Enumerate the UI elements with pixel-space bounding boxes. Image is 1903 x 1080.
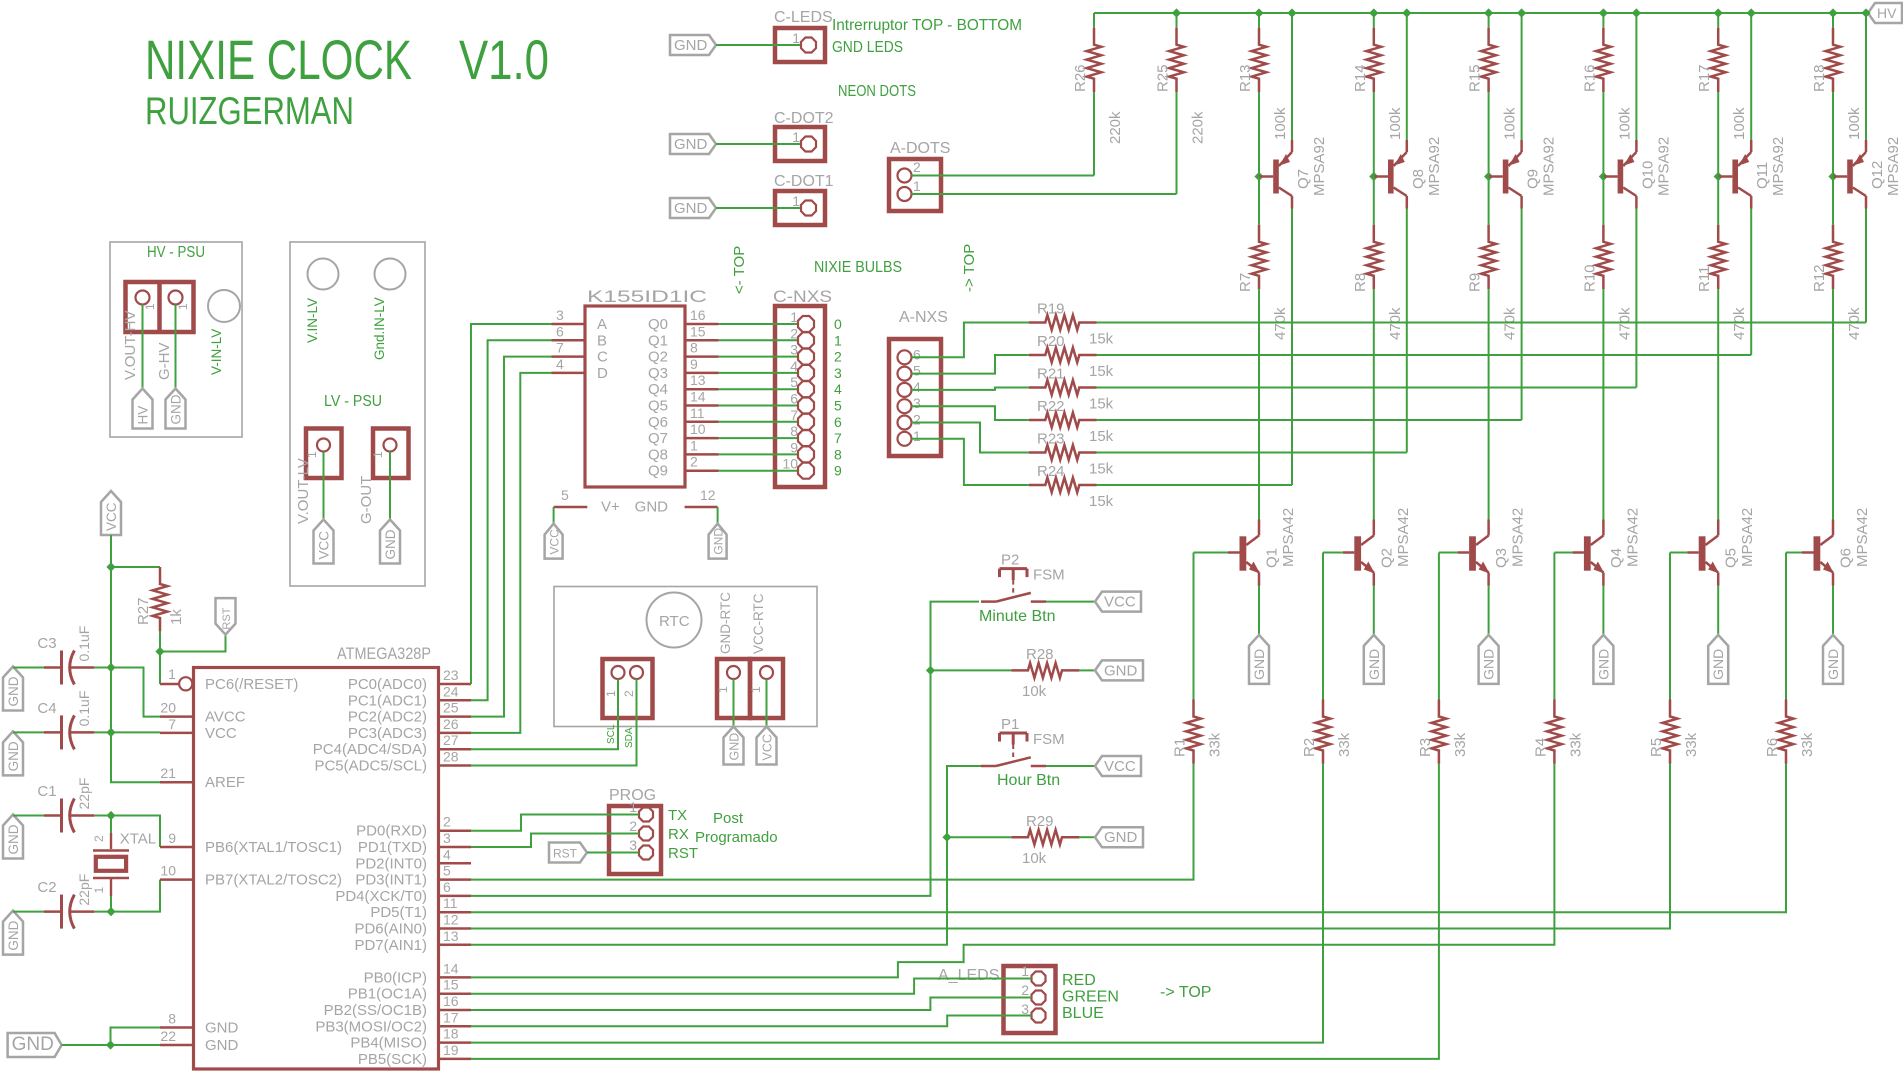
svg-text:GND-RTC: GND-RTC — [718, 592, 733, 654]
svg-text:R18: R18 — [1811, 64, 1828, 92]
svg-text:A-NXS: A-NXS — [899, 309, 948, 326]
resistor R25 — [1155, 13, 1207, 194]
resistor R13 — [1237, 13, 1289, 177]
svg-text:V.OUT-LV: V.OUT-LV — [295, 458, 312, 524]
resistor R17 — [1696, 13, 1748, 177]
svg-text:RED: RED — [1062, 972, 1096, 989]
svg-text:13: 13 — [690, 372, 706, 388]
svg-text:MPSA92: MPSA92 — [1426, 137, 1443, 196]
svg-text:VCC-RTC: VCC-RTC — [751, 593, 766, 654]
ground flag Q2 — [1364, 635, 1384, 684]
svg-text:GND: GND — [1251, 649, 1267, 680]
wire G-HV — [175, 305, 177, 389]
wire A-NXS3 — [912, 406, 1029, 420]
junction C2 — [106, 907, 115, 916]
ground flag C2 — [3, 911, 23, 955]
wire A-NXS1 — [912, 439, 1029, 485]
svg-text:100k: 100k — [1616, 107, 1633, 140]
net PD5 to R6 — [471, 764, 1786, 912]
wire emitter Q5 — [1717, 586, 1719, 635]
svg-text:5: 5 — [913, 363, 921, 379]
connector PROG label — [609, 787, 656, 804]
svg-text:PD5(T1): PD5(T1) — [370, 904, 427, 921]
svg-text:2: 2 — [913, 159, 921, 175]
wire anode Q9 — [1521, 209, 1523, 421]
C-NXS pads — [798, 316, 814, 479]
wire emitter Q12 — [1865, 13, 1867, 140]
resistor R12 — [1811, 177, 1863, 520]
VCC flag P2 — [1095, 592, 1141, 612]
resistor R26 — [1072, 13, 1124, 176]
HV-PSU label — [147, 244, 205, 261]
svg-text:22: 22 — [160, 1028, 176, 1044]
svg-text:PD6(AIN0): PD6(AIN0) — [354, 921, 427, 938]
ground flag C-DOT2 — [670, 134, 716, 154]
svg-text:MPSA42: MPSA42 — [1624, 508, 1641, 567]
connector C-LEDS box — [775, 28, 825, 62]
svg-text:4: 4 — [834, 381, 842, 397]
svg-text:Q4: Q4 — [1608, 548, 1625, 568]
wire PB6 link — [159, 846, 161, 848]
wire VCC down — [111, 535, 160, 782]
junction rail R25 — [1172, 8, 1181, 17]
A_LEDS pad 3 — [1032, 1009, 1046, 1023]
svg-text:10: 10 — [160, 863, 176, 879]
svg-text:MPSA92: MPSA92 — [1655, 137, 1672, 196]
svg-text:PD4(XCK/T0): PD4(XCK/T0) — [335, 888, 427, 905]
svg-text:R29: R29 — [1026, 813, 1054, 830]
MCU right pin stubs — [439, 684, 472, 1059]
VCC flag top-left — [101, 491, 121, 535]
svg-text:R3: R3 — [1417, 738, 1434, 757]
svg-text:MPSA42: MPSA42 — [1280, 508, 1297, 567]
HV-PSU frame — [110, 242, 242, 437]
A-NXS pin numbers — [913, 346, 921, 444]
svg-text:MPSA42: MPSA42 — [1510, 508, 1527, 567]
transistor Q2 — [1343, 508, 1412, 586]
wire R27 to PC6 — [160, 652, 178, 685]
wires K155 to C-NXS — [719, 324, 799, 471]
wire GND to C-DOT2 — [716, 143, 800, 145]
net PB4 to R2 — [471, 764, 1323, 1043]
svg-text:2: 2 — [443, 814, 451, 830]
ground flag C-LEDS — [670, 35, 716, 55]
svg-text:PC2(ADC2): PC2(ADC2) — [348, 709, 427, 726]
connector A-DOTS label — [890, 140, 950, 157]
K155 left names — [597, 316, 608, 382]
svg-text:10k: 10k — [1022, 683, 1047, 700]
IC U1 ATMEGA328P box — [194, 668, 439, 1070]
transistor Q12 — [1833, 137, 1902, 209]
pin label 1b — [176, 303, 190, 310]
transistor Q11 — [1718, 137, 1787, 209]
wire A-NXS4 — [912, 388, 1029, 390]
svg-text:26: 26 — [443, 716, 459, 732]
svg-text:GND: GND — [12, 1034, 54, 1055]
wire emitter Q1 — [1258, 586, 1260, 635]
MCU pin1 bubble — [179, 677, 193, 690]
svg-text:MPSA92: MPSA92 — [1885, 137, 1902, 196]
GND-RTC pin 1 — [716, 686, 730, 693]
svg-text:FSM: FSM — [1033, 567, 1065, 584]
svg-text:Q5: Q5 — [648, 398, 668, 415]
resistor R9 — [1467, 177, 1519, 520]
wire base Q4 — [1554, 552, 1572, 554]
svg-text:R2: R2 — [1301, 738, 1318, 757]
wire anode Q7 — [1291, 209, 1293, 486]
svg-text:2: 2 — [690, 454, 698, 470]
wire A-NXS6 — [912, 323, 1029, 358]
svg-text:17: 17 — [443, 1009, 459, 1025]
svg-text:Q5: Q5 — [1723, 548, 1740, 568]
svg-text:PD3(INT1): PD3(INT1) — [355, 872, 427, 889]
junction R28 — [926, 666, 935, 675]
MCU left pin numbers — [160, 700, 176, 1044]
svg-text:6: 6 — [834, 414, 842, 430]
wire V.OUT-LV — [323, 452, 325, 520]
svg-text:10: 10 — [690, 421, 706, 437]
svg-text:14: 14 — [690, 389, 706, 405]
svg-text:0: 0 — [834, 316, 842, 332]
svg-text:VCC: VCC — [761, 734, 775, 760]
net label BLUE — [1062, 1005, 1104, 1022]
svg-text:VCC: VCC — [1104, 758, 1136, 775]
svg-text:C-NXS: C-NXS — [773, 287, 832, 306]
LV-PSU label — [324, 393, 382, 410]
svg-text:V1.0: V1.0 — [459, 28, 549, 91]
wire emitter Q9 — [1521, 13, 1523, 140]
wire emitter Q7 — [1291, 13, 1293, 140]
resistor R10 — [1581, 177, 1633, 520]
wire C3 to AVCC — [111, 668, 160, 717]
svg-text:GND: GND — [6, 741, 21, 771]
connector A-NXS box — [889, 339, 941, 456]
svg-text:PB3(MOSI/OC2): PB3(MOSI/OC2) — [315, 1018, 427, 1035]
svg-text:16: 16 — [443, 993, 459, 1009]
svg-text:Hour Btn: Hour Btn — [997, 772, 1060, 789]
svg-text:AVCC: AVCC — [205, 709, 246, 726]
junction C1 — [106, 811, 115, 820]
junction rail col6a — [1828, 8, 1837, 17]
pin label 1a — [143, 303, 157, 310]
wire V.OUT-HV — [142, 305, 144, 389]
svg-text:VCC: VCC — [1104, 594, 1136, 611]
svg-text:<- TOP: <- TOP — [731, 246, 748, 294]
resistor R23 — [1029, 431, 1114, 478]
connector C-NXS box — [775, 306, 825, 487]
svg-text:FSM: FSM — [1033, 731, 1065, 748]
svg-text:GND: GND — [674, 136, 708, 153]
svg-text:100k: 100k — [1502, 107, 1519, 140]
svg-text:8: 8 — [834, 446, 842, 462]
svg-text:V-IN-LV: V-IN-LV — [209, 329, 224, 375]
pin label 1 — [371, 451, 385, 458]
svg-text:2: 2 — [622, 690, 636, 697]
A-DOTS pad 2 — [898, 169, 912, 183]
svg-text:MPSA92: MPSA92 — [1770, 137, 1787, 196]
net label SCL — [606, 724, 617, 744]
wire GND to C-LEDS — [716, 44, 800, 46]
net label V-IN-LV a — [209, 329, 224, 375]
ground flag Q4 — [1593, 635, 1613, 684]
C-LEDS pad — [801, 38, 816, 53]
LV-PSU mount circle 1 — [308, 259, 339, 290]
label Post — [713, 810, 744, 827]
wire emitter Q10 — [1635, 13, 1637, 140]
label GND LEDS — [832, 39, 903, 56]
svg-text:15k: 15k — [1089, 363, 1114, 380]
wire A-NXS5 — [912, 355, 1029, 374]
svg-text:R15: R15 — [1467, 64, 1484, 92]
net label RED — [1062, 972, 1096, 989]
GND-RTC pad — [727, 666, 740, 679]
svg-text:6: 6 — [913, 346, 921, 362]
svg-text:10: 10 — [782, 456, 798, 472]
svg-text:AREF: AREF — [205, 774, 245, 791]
wire V+ to VCC — [553, 507, 555, 524]
svg-text:3: 3 — [629, 837, 637, 853]
svg-text:PC3(ADC3): PC3(ADC3) — [348, 725, 427, 742]
svg-text:-> TOP: -> TOP — [1160, 984, 1211, 1001]
net PB5 to R3 — [471, 764, 1439, 1059]
svg-text:GND: GND — [1825, 649, 1841, 680]
svg-text:100k: 100k — [1272, 107, 1289, 140]
svg-text:Q9: Q9 — [1525, 169, 1542, 189]
wire anode row R19 — [1097, 322, 1866, 324]
resistor R18 — [1811, 13, 1863, 177]
svg-text:PC6(/RESET): PC6(/RESET) — [205, 676, 298, 693]
transistor Q10 — [1603, 137, 1672, 209]
junction base Q7 — [1254, 172, 1263, 181]
net TX wire — [471, 815, 639, 831]
net PD6 to R5 — [471, 764, 1670, 929]
net label RST — [668, 845, 698, 862]
svg-text:33k: 33k — [1567, 732, 1584, 757]
wire VCC to R27 — [111, 566, 160, 568]
wire P1 left net — [471, 766, 981, 945]
connector C-DOT1 box — [775, 191, 825, 225]
ground flag LV — [380, 520, 400, 564]
K155 left stubs — [552, 324, 586, 373]
RTC pad 1 — [612, 666, 625, 679]
svg-text:G-HV: G-HV — [156, 343, 173, 381]
svg-text:V+: V+ — [601, 499, 620, 516]
junction rail col3a — [1484, 8, 1493, 17]
svg-text:11: 11 — [443, 895, 458, 911]
svg-text:SDA: SDA — [624, 727, 635, 748]
transistor Q3 — [1458, 508, 1527, 586]
label TOP arrow bottom — [1160, 984, 1211, 1001]
svg-text:-> TOP: -> TOP — [961, 244, 978, 292]
junction C3 — [106, 663, 115, 672]
svg-text:Q6: Q6 — [648, 414, 668, 431]
wire GND to C-DOT1 — [716, 207, 800, 209]
junction rail col2b — [1402, 8, 1411, 17]
svg-text:Q10: Q10 — [1639, 161, 1656, 189]
RTC pad 2 — [630, 666, 643, 679]
svg-text:0.1uF: 0.1uF — [76, 691, 92, 727]
svg-text:4: 4 — [790, 358, 798, 374]
RTC frame — [554, 587, 817, 727]
ground flag Q3 — [1479, 635, 1499, 684]
svg-text:9: 9 — [790, 439, 798, 455]
connector C-DOT1 label — [774, 173, 834, 190]
svg-text:4: 4 — [443, 846, 451, 862]
K155 right names — [648, 316, 668, 480]
wire P1 right — [1046, 765, 1095, 767]
net label V.OUT-HV — [122, 311, 139, 380]
crystal XTAL — [92, 831, 156, 897]
svg-text:GND: GND — [6, 824, 21, 854]
svg-text:100k: 100k — [1846, 107, 1863, 140]
net PD3 to R1 — [471, 764, 1194, 880]
C-NXS pin numbers — [782, 309, 798, 472]
C-DOT1 pad — [801, 201, 816, 216]
svg-text:1: 1 — [913, 428, 921, 444]
junction rail col6b — [1861, 8, 1870, 17]
svg-text:RST: RST — [668, 845, 698, 862]
wire emitter Q4 — [1602, 586, 1604, 635]
svg-text:C2: C2 — [37, 879, 56, 896]
net SDA wire — [471, 679, 618, 749]
svg-text:R10: R10 — [1581, 264, 1598, 292]
junction rail col1a — [1254, 8, 1263, 17]
svg-text:PC0(ADC0): PC0(ADC0) — [348, 676, 427, 693]
svg-text:PB7(XTAL2/TOSC2): PB7(XTAL2/TOSC2) — [205, 872, 342, 889]
svg-text:1: 1 — [716, 686, 730, 693]
svg-text:MPSA42: MPSA42 — [1739, 508, 1756, 567]
svg-text:GND LEDS: GND LEDS — [832, 39, 903, 56]
pad V.OUT-LV 1 — [317, 439, 330, 452]
svg-text:5: 5 — [443, 863, 451, 879]
svg-text:P2: P2 — [1001, 552, 1019, 569]
A-DOTS pin numbers — [913, 159, 921, 194]
svg-text:BLUE: BLUE — [1062, 1005, 1104, 1022]
svg-text:Q1: Q1 — [648, 332, 668, 349]
svg-text:Q6: Q6 — [1838, 548, 1855, 568]
svg-text:GND: GND — [1710, 649, 1726, 680]
svg-text:V.IN-LV: V.IN-LV — [305, 298, 320, 343]
svg-text:GND: GND — [383, 529, 398, 559]
svg-text:100k: 100k — [1387, 107, 1404, 140]
svg-text:1: 1 — [749, 686, 763, 693]
svg-text:12: 12 — [700, 487, 716, 503]
resistor R21 — [1029, 366, 1114, 413]
svg-text:R7: R7 — [1237, 273, 1254, 292]
capacitor C3 — [13, 626, 111, 685]
svg-text:VCC: VCC — [205, 725, 237, 742]
resistor R4 — [1532, 553, 1584, 764]
svg-text:Q2: Q2 — [1378, 548, 1395, 568]
svg-text:21: 21 — [160, 765, 176, 781]
svg-text:Programado: Programado — [695, 829, 778, 846]
svg-text:C-DOT1: C-DOT1 — [774, 173, 834, 190]
svg-text:33k: 33k — [1207, 732, 1224, 757]
wire anode Q8 — [1406, 209, 1408, 453]
svg-text:R9: R9 — [1467, 273, 1484, 292]
ground flag K155 — [709, 524, 727, 559]
svg-text:MPSA42: MPSA42 — [1854, 508, 1871, 567]
svg-text:1: 1 — [176, 303, 190, 310]
VCC-RTC pin 1 — [749, 686, 763, 693]
net label V.OUT-LV — [295, 458, 312, 524]
svg-text:2: 2 — [629, 818, 637, 834]
svg-text:GND: GND — [205, 1037, 239, 1054]
svg-text:5: 5 — [790, 374, 798, 390]
svg-text:15k: 15k — [1089, 461, 1114, 478]
wire base Q5 — [1670, 552, 1687, 554]
wire anode Q12 — [1865, 209, 1867, 323]
wire emitter Q11 — [1750, 13, 1752, 140]
wire C4 to VCCpin — [111, 731, 160, 733]
svg-text:HV: HV — [1877, 5, 1897, 21]
pin label 1 — [305, 451, 319, 458]
svg-text:GND: GND — [1366, 649, 1382, 680]
svg-text:8: 8 — [168, 1011, 176, 1027]
svg-text:PD0(RXD): PD0(RXD) — [356, 823, 427, 840]
svg-text:R25: R25 — [1155, 64, 1172, 92]
MCU left pin stubs — [160, 717, 194, 1045]
svg-text:PB4(MISO): PB4(MISO) — [350, 1035, 427, 1052]
transistor Q8 — [1374, 137, 1443, 209]
wire anode row R23 — [1097, 452, 1407, 454]
svg-text:PB2(SS/OC1B): PB2(SS/OC1B) — [324, 1002, 427, 1019]
junction base Q9 — [1484, 172, 1493, 181]
net label RX — [668, 826, 689, 843]
svg-text:R27: R27 — [135, 597, 152, 625]
net RST wire — [587, 852, 639, 854]
svg-text:Minute Btn: Minute Btn — [979, 608, 1055, 625]
svg-text:Q3: Q3 — [648, 365, 668, 382]
svg-text:33k: 33k — [1452, 732, 1469, 757]
svg-text:22pF: 22pF — [76, 874, 92, 906]
VCC flag LV — [314, 520, 334, 564]
svg-text:HV - PSU: HV - PSU — [147, 244, 205, 261]
connector C-LEDS label — [774, 9, 833, 26]
svg-text:15k: 15k — [1089, 493, 1114, 510]
wire emitter Q8 — [1406, 13, 1408, 140]
wire VCC-RTC — [766, 679, 768, 727]
svg-text:1: 1 — [371, 451, 385, 458]
wire anode row R21 — [1097, 387, 1637, 389]
ground flag C3 — [3, 667, 23, 711]
svg-text:GND: GND — [1104, 829, 1138, 846]
svg-text:R5: R5 — [1648, 738, 1665, 757]
svg-text:4: 4 — [556, 356, 564, 372]
svg-text:1: 1 — [92, 887, 106, 894]
svg-text:R1: R1 — [1172, 738, 1189, 757]
svg-text:MPSA92: MPSA92 — [1311, 137, 1328, 196]
svg-text:RX: RX — [668, 826, 689, 843]
net label V.IN-LV — [305, 298, 320, 343]
svg-text:GND: GND — [1104, 662, 1138, 679]
svg-text:11: 11 — [690, 405, 705, 421]
ground flag RTC — [724, 727, 744, 765]
net label TX — [668, 807, 687, 824]
IC U2 name — [587, 288, 707, 306]
svg-text:16: 16 — [690, 307, 706, 323]
svg-text:1: 1 — [1021, 963, 1029, 979]
svg-text:RST: RST — [553, 847, 578, 861]
svg-text:23: 23 — [443, 667, 459, 683]
svg-text:12: 12 — [443, 912, 459, 928]
svg-text:C3: C3 — [37, 635, 56, 652]
wire R27 to RST — [160, 635, 226, 652]
label TOP left arrow — [731, 246, 748, 294]
svg-text:9: 9 — [834, 463, 842, 479]
wire GND12 — [717, 507, 719, 524]
IC U1 name — [337, 644, 431, 663]
